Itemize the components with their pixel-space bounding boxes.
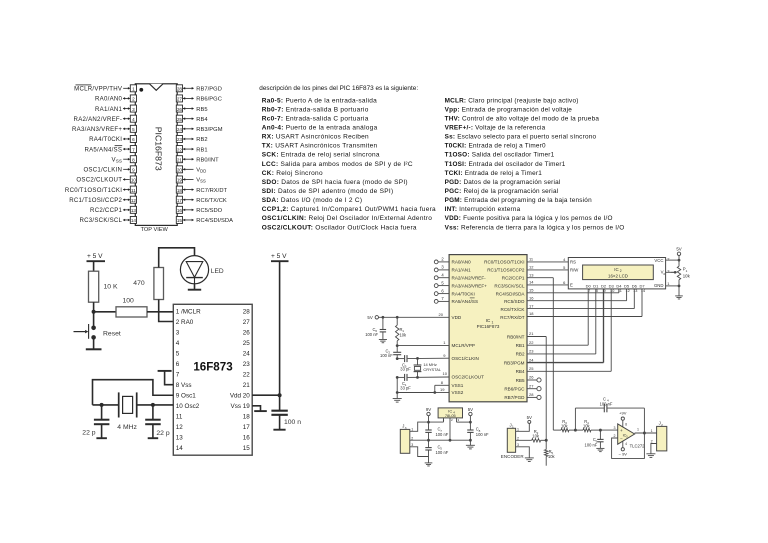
wire pin 10 Osc2 rail	[137, 404, 173, 406]
svg-text:RA3/AN3/VREF+: RA3/AN3/VREF+	[452, 283, 488, 288]
svg-text:22: 22	[529, 340, 534, 345]
svg-text:E: E	[570, 282, 573, 287]
node crystal left	[100, 403, 104, 407]
svg-text:9V: 9V	[426, 407, 431, 412]
pin 18 RC7/RX/DT	[176, 186, 227, 194]
wire J2 pin2 to ground	[651, 444, 657, 454]
svg-text:10k: 10k	[400, 333, 408, 338]
svg-text:21: 21	[529, 331, 534, 336]
node MCLR junction	[92, 310, 96, 314]
svg-text:RC6/TX/CK: RC6/TX/CK	[501, 307, 526, 312]
svg-text:19: 19	[177, 178, 183, 183]
svg-text:4: 4	[176, 340, 180, 347]
svg-text:RA5/AN4/SS: RA5/AN4/SS	[452, 299, 479, 304]
svg-text:7: 7	[132, 147, 135, 152]
wire MCLR	[396, 340, 449, 347]
IC4 78L05 regulator	[438, 408, 462, 440]
svg-text:+ 5 V: + 5 V	[87, 253, 103, 260]
svg-text:RA4/T0CKI: RA4/T0CKI	[452, 291, 475, 296]
svg-text:7: 7	[176, 371, 180, 378]
wire filter input	[553, 429, 561, 431]
pin 20 VDD	[176, 166, 206, 174]
pin 27 programming stub	[527, 383, 541, 390]
wire J3 pin3	[410, 447, 429, 457]
wire J3 pin1 to 9V node	[410, 422, 444, 431]
svg-text:RC2/CCP1: RC2/CCP1	[502, 276, 525, 281]
resistor R4 10k	[575, 419, 600, 432]
wire node to R 100	[94, 311, 116, 313]
wire LCD D0 to PIC pin 22	[527, 289, 588, 345]
wire GND stub	[666, 285, 679, 287]
wire VSS1/VSS2 to ground rail	[396, 380, 449, 394]
svg-text:+ 5 V: + 5 V	[271, 253, 287, 260]
svg-text:Reset: Reset	[103, 331, 121, 338]
svg-text:IC: IC	[614, 267, 618, 272]
pin 6 RA4/T0CKI	[89, 135, 136, 143]
svg-text:RB5: RB5	[196, 107, 207, 113]
svg-text:4: 4	[625, 442, 627, 446]
node crystal right	[151, 403, 155, 407]
svg-text:9: 9	[132, 168, 135, 173]
svg-text:10: 10	[443, 371, 448, 376]
svg-text:10k: 10k	[532, 434, 540, 439]
capacitor 22p (left)	[82, 405, 109, 438]
svg-text:LCC: Salida para ambos modos d: LCC: Salida para ambos modos de SPI y de…	[262, 161, 413, 168]
svg-text:5V: 5V	[676, 247, 681, 252]
svg-text:Vpp: Entrada de programación d: Vpp: Entrada de programación del voltaje	[445, 106, 573, 113]
svg-text:10k: 10k	[561, 423, 569, 428]
power +9V (op-amp)	[619, 411, 627, 427]
wire R100 to pin 1 /MCLR	[147, 311, 173, 313]
svg-text:5V: 5V	[367, 315, 372, 320]
svg-text:13: 13	[176, 435, 184, 442]
wire Reset to ground	[93, 340, 95, 349]
svg-text:17: 17	[529, 303, 534, 308]
svg-text:IC: IC	[486, 318, 491, 324]
svg-text:26: 26	[243, 329, 251, 336]
capacitor C7 100nF	[425, 422, 448, 442]
svg-text:3: 3	[176, 329, 180, 336]
ground (pin 8, upward bar)	[158, 370, 172, 372]
wire 78L05 out to 5V	[457, 421, 471, 423]
svg-text:D0: D0	[586, 283, 592, 288]
pin 28 programming stub	[527, 392, 541, 399]
svg-text:28: 28	[243, 308, 251, 315]
svg-text:VSS: VSS	[196, 178, 206, 184]
svg-text:ENCODER: ENCODER	[501, 454, 525, 459]
wire ground rail vertical	[396, 377, 398, 398]
power 5V (LCD contrast)	[676, 247, 681, 256]
pin 4 RA2 connector stub	[434, 273, 449, 280]
svg-text:16: 16	[177, 208, 183, 213]
svg-text:PIC16F873: PIC16F873	[477, 324, 500, 329]
svg-text:MCLR/VPP: MCLR/VPP	[452, 343, 476, 348]
svg-text:Vss: Referencia de tierra para: Vss: Referencia de tierra para la lógica…	[445, 224, 625, 231]
svg-text:VDD: VDD	[452, 315, 462, 320]
svg-text:2: 2	[651, 439, 653, 443]
pin 21 RB0/INT	[176, 156, 219, 164]
svg-text:10k: 10k	[583, 423, 591, 428]
wire OSC2 with capacitor C1 33pF	[396, 371, 449, 391]
svg-text:OSC1/CLKIN: OSC1/CLKIN	[452, 356, 479, 361]
resistor 10K	[89, 271, 118, 302]
svg-text:RB1: RB1	[516, 343, 525, 348]
svg-text:100 nF: 100 nF	[600, 401, 613, 406]
svg-text:RA3/AN3/VREF+: RA3/AN3/VREF+	[72, 126, 122, 133]
wire feedback loop (inverting input)	[612, 408, 645, 458]
svg-text:RB3/PGM: RB3/PGM	[504, 360, 525, 365]
svg-text:15: 15	[529, 288, 534, 293]
capacitor 100n	[271, 411, 301, 430]
svg-text:RA0/AN0: RA0/AN0	[95, 96, 123, 103]
svg-text:14: 14	[529, 280, 534, 285]
svg-text:RB4: RB4	[196, 117, 208, 123]
capacitor C5b 100nF (lower)	[425, 440, 448, 456]
svg-text:27: 27	[243, 319, 251, 326]
svg-text:21: 21	[243, 382, 251, 389]
wire 470 bottom to pin 2 RA0	[159, 300, 174, 322]
svg-text:19: 19	[440, 387, 445, 392]
svg-text:TCKI: Entrada de reloj a Timer: TCKI: Entrada de reloj a Timer1	[445, 170, 543, 177]
svg-text:18: 18	[529, 311, 534, 316]
resistor R1 10k (MCLR pullup)	[396, 316, 408, 346]
pin 24 RB3/PGM	[176, 125, 222, 133]
svg-text:17: 17	[177, 198, 183, 203]
ground (P1)	[675, 295, 683, 297]
svg-text:RC4/SDI/SDA: RC4/SDI/SDA	[196, 218, 233, 224]
svg-text:MCLR/VPP/THV: MCLR/VPP/THV	[74, 86, 123, 93]
svg-text:RB6/PGC: RB6/PGC	[504, 387, 525, 392]
power 5V rail to VDD pin 20	[367, 312, 449, 320]
pin 26 RB5	[176, 105, 207, 113]
svg-text:23: 23	[529, 349, 534, 354]
pin 1 MCLR/VPP/THV	[74, 85, 136, 93]
wire LCD D7 to PIC pin 18	[527, 289, 642, 317]
pin 11 RC0/T1OSO/T1CKI	[65, 186, 137, 194]
svg-text:RB7/PGD: RB7/PGD	[196, 87, 222, 93]
svg-text:+9V: +9V	[619, 411, 627, 416]
pin 2 RA0/AN0	[95, 95, 136, 103]
pin 23 RB2	[176, 135, 207, 143]
svg-text:RC3/SCK/SCL: RC3/SCK/SCL	[79, 217, 122, 224]
wire pin 8 Vss to ground	[165, 371, 174, 384]
svg-text:RC5/SDO: RC5/SDO	[504, 299, 525, 304]
svg-text:33 pF: 33 pF	[400, 385, 411, 390]
wire pin 19 Vss to ground	[252, 406, 260, 411]
capacitor C4 100nF (feedback)	[575, 396, 644, 430]
svg-text:RB2: RB2	[516, 352, 525, 357]
svg-text:SDI: Datos de SPI adentro (mod: SDI: Datos de SPI adentro (modo de SPI)	[262, 188, 394, 195]
svg-text:15: 15	[243, 445, 251, 452]
power 5V output	[468, 407, 473, 423]
svg-text:Ss: Esclavo selecto para el pu: Ss: Esclavo selecto para el puerto seria…	[445, 134, 597, 141]
svg-text:RA0/AN0: RA0/AN0	[452, 260, 472, 265]
svg-text:12: 12	[131, 198, 137, 203]
ground (pin 19)	[254, 410, 267, 412]
pin 8 Vss	[112, 156, 137, 164]
svg-text:22 p: 22 p	[82, 430, 95, 437]
svg-text:23: 23	[243, 361, 251, 368]
pin 4 RA2/AN2/VREF-	[74, 115, 137, 123]
svg-text:6: 6	[176, 361, 180, 368]
svg-text:3: 3	[614, 426, 616, 430]
svg-text:RA1/AN1: RA1/AN1	[452, 268, 472, 273]
ground (lower cap)	[428, 457, 430, 463]
wire R10K to MCLR node	[93, 302, 95, 327]
ground (encoder)	[525, 457, 534, 459]
resistor 470	[133, 268, 163, 300]
power +5V supply (left)	[87, 253, 106, 261]
svg-text:PGC: Reloj de la programación: PGC: Reloj de la programación serial	[445, 188, 559, 195]
svg-text:OSC2/CLKOUT: OSC2/CLKOUT	[452, 374, 485, 379]
svg-text:5: 5	[132, 127, 135, 132]
wire +5V down to Vdd pin 20	[279, 261, 281, 410]
svg-text:27: 27	[529, 383, 534, 388]
svg-text:RC1/T1OSI/CCP2: RC1/T1OSI/CCP2	[69, 197, 122, 204]
svg-text:RB0/INT: RB0/INT	[196, 157, 219, 163]
pin 5 RA3/AN3/VREF+	[72, 125, 136, 133]
svg-text:25: 25	[529, 366, 534, 371]
ground (C8 / rail end)	[469, 440, 471, 445]
resistor R2 10k	[516, 429, 548, 442]
svg-text:o: o	[663, 272, 665, 276]
pin 25 RB4	[176, 115, 208, 123]
svg-text:An0-4: Puerto de la entrada an: An0-4: Puerto de la entrada análoga	[262, 125, 378, 132]
svg-text:RB5: RB5	[516, 378, 525, 383]
svg-text:LED: LED	[211, 268, 224, 275]
svg-text:8: 8	[625, 423, 627, 427]
svg-text:D3: D3	[609, 283, 615, 288]
svg-text:25: 25	[243, 340, 251, 347]
svg-text:13: 13	[529, 272, 534, 277]
ground (J2)	[646, 453, 655, 455]
potentiometer P1 10k	[671, 256, 691, 296]
pin 2 RA0 connector stub	[434, 257, 449, 264]
svg-text:RC4/SDI/SDA: RC4/SDI/SDA	[496, 291, 526, 296]
svg-text:VDD: Fuente positiva para la l: VDD: Fuente positiva para la lógica y lo…	[445, 215, 613, 222]
svg-text:Ra0-5: Puerto A de la entrada-: Ra0-5: Puerto A de la entrada-salida	[262, 97, 377, 104]
svg-text:100 nF: 100 nF	[365, 332, 378, 337]
svg-text:RC0/T1OSO/T1CKI: RC0/T1OSO/T1CKI	[484, 260, 524, 265]
svg-text:33 pF: 33 pF	[400, 367, 411, 372]
wire mid rail	[410, 439, 471, 441]
svg-text:RS: RS	[570, 260, 576, 265]
power 5V (encoder)	[527, 415, 532, 423]
wire RC2/CCP1 pin13 to filter (long vertical)	[527, 272, 553, 430]
svg-text:RB6/PGC: RB6/PGC	[196, 97, 222, 103]
svg-text:OSC2/CLKOUT: OSC2/CLKOUT	[76, 177, 122, 184]
IC U1 PIC16F873 DIP-28 package body (TOP VIEW)	[135, 84, 177, 226]
svg-text:3: 3	[132, 107, 135, 112]
pin 17 RC6/TX/CK	[176, 196, 227, 204]
pin 19 VSS	[176, 176, 206, 184]
wire op-amp output to J2	[635, 432, 657, 434]
svg-text:100 nF: 100 nF	[380, 353, 393, 358]
pin 3 RA1/AN1	[95, 105, 136, 113]
svg-text:VSS: VSS	[112, 156, 123, 163]
wire VCC stub	[666, 259, 679, 261]
connector J2 output	[651, 421, 667, 451]
svg-text:RB7/PGD: RB7/PGD	[504, 395, 525, 400]
node R4/opamp input	[599, 429, 602, 432]
svg-text:25: 25	[177, 117, 183, 122]
svg-text:16×2 LCD: 16×2 LCD	[608, 273, 628, 278]
ground (below Reset)	[86, 348, 102, 350]
svg-text:VDD: VDD	[196, 168, 206, 174]
connector J3 (power input)	[400, 424, 413, 454]
svg-text:13: 13	[131, 208, 137, 213]
power +5V supply (right)	[271, 253, 289, 261]
svg-text:TOP VIEW: TOP VIEW	[141, 227, 169, 233]
svg-text:RA2/AN2/VREF-: RA2/AN2/VREF-	[74, 116, 123, 123]
svg-text:100 n: 100 n	[284, 419, 301, 426]
svg-text:22: 22	[177, 147, 183, 152]
svg-text:D1: D1	[593, 283, 599, 288]
svg-text:RB4: RB4	[516, 369, 525, 374]
svg-text:PIC16F873: PIC16F873	[154, 127, 164, 171]
svg-text:− 9V: − 9V	[619, 452, 628, 457]
wire LED cathode to ground	[194, 284, 196, 290]
resistor 100	[116, 298, 147, 318]
svg-text:SCK: Entrada de reloj serial s: SCK: Entrada de reloj serial síncrona	[262, 152, 380, 159]
svg-text:22: 22	[243, 371, 251, 378]
resistor R5 10k (pulldown)	[545, 440, 556, 465]
wire +5V to R 10K	[93, 261, 95, 271]
wire LCD D3 to PIC pin 25	[527, 289, 611, 371]
svg-text:5V: 5V	[527, 415, 532, 420]
svg-text:RC1/T1OSI/CCP2: RC1/T1OSI/CCP2	[487, 268, 525, 273]
svg-text:T1OSI: Entrada del oscilador d: T1OSI: Entrada del oscilador de Timer1	[445, 161, 566, 168]
svg-text:RC0/T1OSO/T1CKI: RC0/T1OSO/T1CKI	[65, 187, 122, 194]
svg-text:Vss 19: Vss 19	[231, 403, 251, 410]
svg-text:CRYSTAL: CRYSTAL	[423, 367, 441, 372]
svg-text:24: 24	[529, 357, 534, 362]
svg-text:2: 2	[132, 97, 135, 102]
svg-text:RA1/AN1: RA1/AN1	[95, 106, 123, 113]
svg-text:D6: D6	[632, 283, 638, 288]
svg-text:VSS1: VSS1	[452, 383, 464, 388]
wire J1 pin1 to 5V	[516, 423, 530, 431]
svg-text:RB0/INT: RB0/INT	[507, 334, 525, 339]
IC1 PIC16F873	[449, 255, 527, 402]
svg-text:OSC1/CLKIN: Reloj Del Oscilado: OSC1/CLKIN: Reloj Del Oscilador In/Exter…	[262, 215, 432, 222]
capacitor C2 100nF (MCLR)	[380, 346, 401, 359]
svg-text:D2: D2	[601, 283, 607, 288]
svg-text:1: 1	[512, 425, 514, 429]
ground (C9)	[596, 447, 604, 449]
node output/feedback	[643, 432, 646, 435]
svg-text:15: 15	[177, 218, 183, 223]
svg-text:RC3/SCK/SCL: RC3/SCK/SCL	[494, 283, 525, 288]
crystal 4 MHz	[117, 392, 137, 431]
svg-text:OSC1/CLKIN: OSC1/CLKIN	[83, 167, 122, 174]
svg-text:GND: GND	[654, 283, 664, 288]
power -9V (op-amp)	[619, 441, 628, 456]
op-amp IC3 TLC272	[614, 424, 646, 448]
svg-text:14: 14	[131, 218, 137, 223]
svg-text:24: 24	[243, 350, 251, 357]
pin 27 RB6/PGC	[176, 95, 222, 103]
pin 9 OSC1/CLKIN	[83, 166, 136, 174]
svg-text:16: 16	[243, 435, 251, 442]
pin 6 RA4 connector stub	[434, 288, 449, 295]
pin 7 RA5/AN4/SS	[84, 146, 136, 154]
svg-text:Vdd 20: Vdd 20	[230, 393, 250, 400]
svg-text:RB2: RB2	[196, 137, 207, 143]
svg-text:OSC2/CLKOUT: Oscilador Out/Clo: OSC2/CLKOUT: Oscilador Out/Clock Hacia f…	[262, 224, 417, 231]
svg-text:RA2/AN2/VREF-: RA2/AN2/VREF-	[452, 276, 487, 281]
node Vdd	[278, 393, 282, 397]
svg-text:26: 26	[529, 375, 534, 380]
wire RC3 pin14 to LCD E	[527, 280, 568, 285]
svg-text:1: 1	[132, 87, 135, 92]
wire V0 stub	[666, 271, 676, 273]
wire to op-amp +input	[600, 429, 617, 431]
node R3/R4 feedback	[574, 429, 577, 432]
pushbutton Reset	[74, 324, 121, 340]
svg-text:24: 24	[177, 127, 183, 132]
svg-text:10: 10	[131, 178, 137, 183]
svg-text:8: 8	[132, 157, 135, 162]
svg-text:CK: Reloj Síncrono: CK: Reloj Síncrono	[262, 170, 323, 177]
svg-text:470: 470	[133, 280, 145, 287]
svg-text:RC5/SDO: RC5/SDO	[196, 208, 222, 214]
svg-text:11: 11	[131, 188, 136, 193]
svg-text:26: 26	[177, 107, 183, 112]
svg-text:VREF+/-: Voltaje de la referen: VREF+/-: Voltaje de la referencia	[445, 125, 546, 132]
svg-text:18: 18	[177, 188, 183, 193]
svg-text:T1OSO: Salida del oscilador Ti: T1OSO: Salida del oscilador Timer1	[445, 152, 555, 159]
svg-text:28: 28	[177, 87, 183, 92]
svg-text:27: 27	[177, 97, 183, 102]
svg-text:RX: USART Asincrónicos Reciben: RX: USART Asincrónicos Reciben	[262, 134, 369, 141]
connector J1 encoder	[501, 423, 525, 460]
capacitor C6 100nF (5V rail decoupling)	[365, 316, 386, 339]
capacitor C8 100nF	[467, 422, 489, 442]
svg-text:1: 1	[686, 269, 688, 273]
svg-text:12: 12	[625, 289, 629, 293]
svg-text:20: 20	[177, 168, 183, 173]
svg-text:5: 5	[176, 350, 180, 357]
svg-text:8 Vss: 8 Vss	[176, 382, 192, 389]
svg-text:13: 13	[633, 289, 637, 293]
svg-text:100 nF: 100 nF	[436, 450, 449, 455]
svg-text:18: 18	[243, 414, 251, 421]
svg-text:RC6/TX/CK: RC6/TX/CK	[196, 198, 227, 204]
svg-text:SDO: Datos de SPI hacia fuera: SDO: Datos de SPI hacia fuera (modo de S…	[262, 179, 408, 186]
wire LCD D5 to PIC pin 16	[527, 289, 627, 301]
svg-text:1: 1	[651, 429, 653, 433]
wire LCD D4 to PIC pin 15	[527, 288, 619, 293]
svg-text:CCP1,2: Capture1 In/Compare1 O: CCP1,2: Capture1 In/Compare1 Out/PWM1 ha…	[262, 206, 436, 213]
svg-text:RA5/AN4/SS: RA5/AN4/SS	[84, 146, 122, 153]
svg-text:10 Osc2: 10 Osc2	[176, 403, 200, 410]
svg-text:17: 17	[243, 424, 251, 431]
pin 22 RB1	[176, 146, 207, 154]
svg-text:TX: USART Asincrónicos Transmi: TX: USART Asincrónicos Transmiten	[262, 143, 378, 150]
svg-text:THV: Control de alto voltaje d: THV: Control de alto voltaje del modo de…	[445, 115, 600, 122]
pin 10 OSC2/CLKOUT	[76, 176, 136, 184]
svg-text:RB3/PGM: RB3/PGM	[196, 127, 222, 133]
wire LCD D1 to PIC pin 23	[527, 289, 596, 354]
svg-text:16: 16	[529, 295, 534, 300]
wire 470 top / LED top rail	[159, 248, 195, 268]
svg-text:100 nF: 100 nF	[436, 432, 449, 437]
rotated part number PIC16F873	[154, 127, 164, 171]
svg-text:TLC272: TLC272	[630, 443, 646, 448]
svg-text:23: 23	[177, 137, 183, 142]
svg-text:100 nF: 100 nF	[476, 432, 489, 437]
